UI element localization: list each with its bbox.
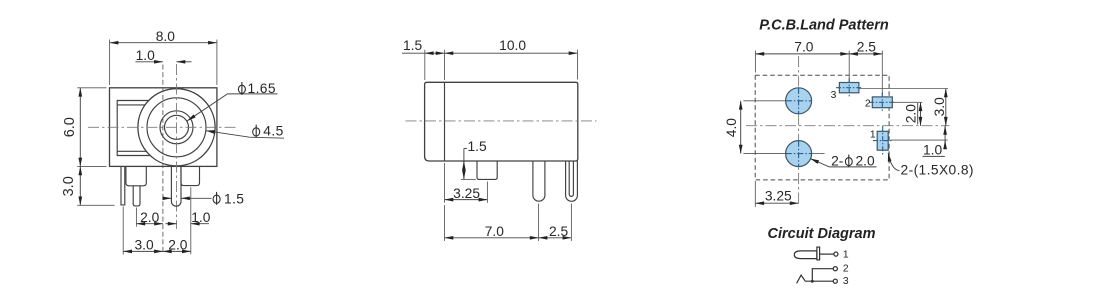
svg-text:1.0: 1.0 <box>191 210 211 225</box>
dim 7.0 <box>445 237 539 239</box>
svg-text:3.25: 3.25 <box>765 188 792 203</box>
pad 1 crosshair <box>882 126 884 156</box>
hole pad bottom dia 2.0 <box>786 141 812 167</box>
hole circle dia 4.5 <box>147 98 206 157</box>
plug tip bar <box>817 247 820 260</box>
svg-text:3: 3 <box>843 276 849 287</box>
leader 2-dia2.0 <box>810 159 876 167</box>
jack body front outline <box>110 88 217 167</box>
svg-text:1: 1 <box>843 249 849 260</box>
wire pin1 <box>820 253 834 255</box>
dim 1.5 top <box>402 52 425 54</box>
vertical centerline holes <box>798 56 800 207</box>
svg-text:4.0: 4.0 <box>724 118 739 138</box>
dim 2.5 <box>539 237 572 239</box>
dim 3.25 bottom <box>755 202 798 204</box>
svg-text:8.0: 8.0 <box>156 29 176 44</box>
crosshair hole top <box>786 88 812 114</box>
svg-text:3.0: 3.0 <box>932 97 947 117</box>
dim 2.0 bottom <box>163 250 191 252</box>
svg-text:1: 1 <box>870 129 876 140</box>
dim 6.0 <box>79 88 81 167</box>
dim 10.0 <box>445 52 578 54</box>
svg-text:7.0: 7.0 <box>485 224 505 239</box>
horizontal centerline <box>406 120 597 122</box>
leader dia 1.5 pin <box>164 197 172 199</box>
dim 2.0 right <box>920 102 922 125</box>
dim 1.0 top <box>135 61 163 63</box>
dim 1.5 tab depth <box>464 147 467 149</box>
hole pad top dia 2.0 <box>786 88 812 114</box>
center pin circle dia 1.65 <box>165 115 189 139</box>
crosshair hole bottom <box>786 141 812 167</box>
dim 3.0 right <box>945 89 947 126</box>
dim 1.0 right <box>944 126 946 148</box>
flange line <box>444 82 446 161</box>
terminal circle 2 <box>833 267 837 271</box>
pad 3 smd <box>839 83 859 93</box>
leader dia 4.5 <box>206 131 284 139</box>
jack body side outline <box>425 82 578 161</box>
pin B inner lines <box>569 161 573 196</box>
svg-text:3.25: 3.25 <box>453 186 480 201</box>
pad 3 crosshair <box>848 51 850 83</box>
svg-text:1.5: 1.5 <box>468 139 488 154</box>
dim 7.0 top <box>755 53 849 55</box>
pad 2 crosshair <box>881 51 883 97</box>
svg-text:Circuit Diagram: Circuit Diagram <box>768 226 876 242</box>
svg-text:1.0: 1.0 <box>136 48 156 63</box>
svg-text:2: 2 <box>865 99 871 110</box>
vertical centerline <box>176 64 178 229</box>
pin base circle <box>160 111 193 144</box>
keyway slot left <box>117 101 150 156</box>
horizontal centerline <box>88 126 236 128</box>
svg-text:2.0: 2.0 <box>168 237 188 252</box>
left terminal pin <box>133 186 140 206</box>
left lug block <box>126 166 146 185</box>
plug barrel symbol <box>794 251 817 259</box>
svg-text:1.5: 1.5 <box>403 38 423 53</box>
svg-text:3: 3 <box>831 90 837 101</box>
svg-text:6.0: 6.0 <box>62 117 78 137</box>
svg-text:P.C.B.Land Pattern: P.C.B.Land Pattern <box>759 18 889 34</box>
wire pin3 <box>805 280 833 282</box>
dim 2.0 mid bottom <box>136 223 163 225</box>
svg-text:2.5: 2.5 <box>857 39 877 54</box>
extension line at 1.0 offset <box>162 65 164 255</box>
terminal circle 3 <box>833 279 837 283</box>
svg-text:7.0: 7.0 <box>794 39 814 54</box>
svg-text:2.0: 2.0 <box>856 154 876 169</box>
ext lines hole centers <box>743 100 785 102</box>
dim 3.0 bottom <box>123 250 163 252</box>
dim 8.0 <box>110 42 217 44</box>
center terminal pin dia1.5 <box>171 166 181 206</box>
svg-text:2: 2 <box>843 263 849 274</box>
svg-text:1.0: 1.0 <box>923 143 943 158</box>
pcb outline dashed <box>755 75 889 180</box>
dim 4.0 <box>740 101 742 154</box>
svg-text:2.0: 2.0 <box>140 210 160 225</box>
svg-text:3.0: 3.0 <box>61 176 77 196</box>
svg-text:2-(1.5X0.8): 2-(1.5X0.8) <box>901 163 974 178</box>
pin A round tip <box>533 161 545 201</box>
left side terminal thin pin <box>121 166 125 205</box>
pad 2 smd <box>872 97 892 108</box>
pad 1 smd <box>877 131 888 150</box>
svg-text:1.5: 1.5 <box>224 191 244 206</box>
junction node <box>811 280 814 283</box>
dim 2.5 top <box>849 53 882 55</box>
svg-text:3.0: 3.0 <box>135 237 155 252</box>
dim 3.0 left <box>79 166 81 205</box>
svg-text:4.5: 4.5 <box>263 124 283 139</box>
mounting tab <box>477 161 497 179</box>
barrel outer circle <box>138 89 215 166</box>
svg-text:2.0: 2.0 <box>904 104 919 124</box>
switch contact spring <box>797 275 806 283</box>
horizontal centerline <box>746 125 949 127</box>
right lug block <box>181 166 200 185</box>
pin B round tip <box>566 161 578 201</box>
dim 3.25 <box>445 199 488 201</box>
leader 2-(1.5X0.8) <box>888 153 899 171</box>
dim 1.0 mid bottom <box>166 223 177 225</box>
leader dia 1.65 <box>187 94 277 121</box>
svg-text:10.0: 10.0 <box>499 38 526 53</box>
svg-text:2-: 2- <box>831 154 843 169</box>
svg-text:1.65: 1.65 <box>248 81 276 96</box>
terminal circle 1 <box>834 252 838 256</box>
wire pin2 <box>812 269 833 282</box>
svg-text:2.5: 2.5 <box>549 224 569 239</box>
